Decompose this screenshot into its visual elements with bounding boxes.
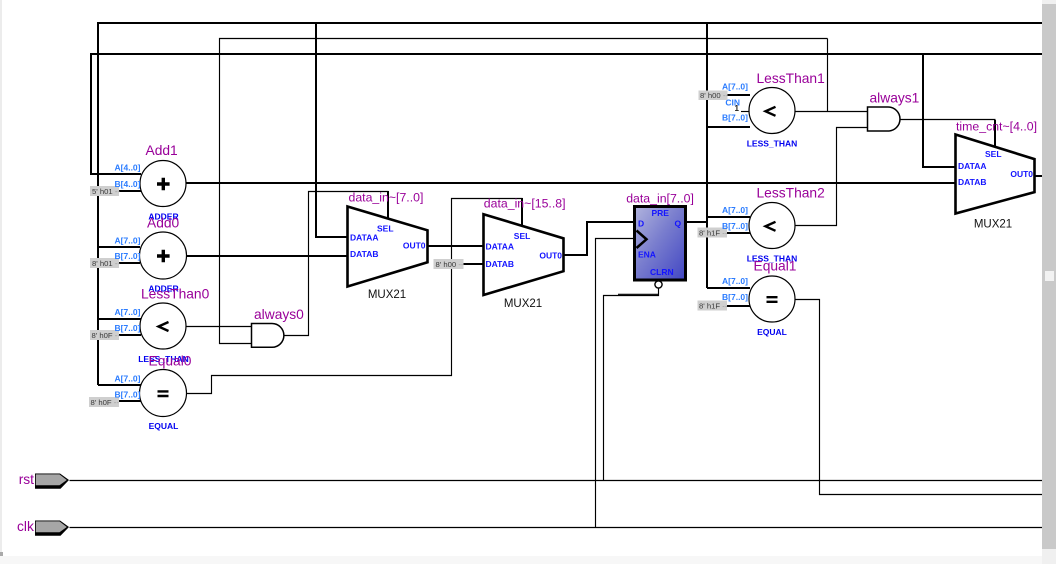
svg-text:Add0: Add0 [147, 216, 180, 231]
svg-text:8' h00 --: 8' h00 -- [436, 260, 464, 269]
svg-text:B[7..0]: B[7..0] [722, 292, 748, 302]
svg-text:A[7..0]: A[7..0] [115, 307, 141, 317]
svg-text:LESS_THAN: LESS_THAN [747, 139, 798, 149]
svg-text:data_in~[15..8]: data_in~[15..8] [484, 197, 566, 211]
svg-text:Q: Q [675, 219, 682, 229]
svg-text:clk: clk [17, 519, 34, 534]
svg-text:1: 1 [735, 104, 740, 113]
svg-text:EQUAL: EQUAL [149, 421, 179, 431]
svg-text:time_cnt~[4..0]: time_cnt~[4..0] [956, 120, 1037, 134]
svg-text:SEL: SEL [377, 224, 394, 234]
svg-text:MUX21: MUX21 [974, 219, 1012, 231]
svg-text:Equal0: Equal0 [149, 354, 192, 369]
svg-text:always1: always1 [870, 90, 920, 105]
svg-text:B[4..0]: B[4..0] [115, 179, 141, 189]
svg-text:A[4..0]: A[4..0] [115, 163, 141, 173]
svg-text:B[7..0]: B[7..0] [722, 221, 748, 231]
svg-text:LessThan2: LessThan2 [757, 186, 825, 201]
svg-text:LessThan0: LessThan0 [141, 287, 210, 302]
svg-text:8' h1F --: 8' h1F -- [699, 302, 728, 311]
svg-text:data_in~[7..0]: data_in~[7..0] [349, 191, 424, 205]
svg-text:LessThan1: LessThan1 [757, 71, 825, 86]
svg-text:MUX21: MUX21 [504, 298, 542, 310]
svg-text:DATAB: DATAB [350, 249, 378, 259]
svg-text:OUT0: OUT0 [539, 251, 562, 261]
svg-text:ENA: ENA [638, 250, 656, 260]
svg-text:EQUAL: EQUAL [757, 327, 787, 337]
svg-text:B[7..0]: B[7..0] [115, 390, 141, 400]
svg-text:DATAB: DATAB [486, 259, 514, 269]
svg-text:data_in[7..0]: data_in[7..0] [626, 192, 694, 206]
svg-text:DATAB: DATAB [958, 177, 986, 187]
svg-text:SEL: SEL [985, 149, 1002, 159]
svg-text:CLRN: CLRN [650, 267, 674, 277]
svg-text:always0: always0 [254, 307, 304, 322]
svg-text:SEL: SEL [514, 231, 531, 241]
svg-text:B[7..0]: B[7..0] [115, 323, 141, 333]
svg-text:Add1: Add1 [146, 143, 178, 158]
svg-text:B[7..0]: B[7..0] [115, 251, 141, 261]
svg-text:OUT0: OUT0 [1010, 169, 1033, 179]
svg-text:PRE: PRE [652, 208, 670, 218]
svg-text:rst: rst [19, 472, 34, 487]
svg-text:A[7..0]: A[7..0] [722, 205, 748, 215]
svg-text:A[7..0]: A[7..0] [722, 276, 748, 286]
svg-text:A[7..0]: A[7..0] [722, 82, 748, 92]
svg-text:A[7..0]: A[7..0] [115, 374, 141, 384]
svg-text:DATAA: DATAA [350, 233, 378, 243]
svg-text:B[7..0]: B[7..0] [722, 113, 748, 123]
svg-text:D: D [638, 219, 644, 229]
svg-text:DATAA: DATAA [958, 161, 986, 171]
svg-text:DATAA: DATAA [486, 241, 514, 251]
svg-text:8' h00 --: 8' h00 -- [700, 91, 728, 100]
svg-text:A[7..0]: A[7..0] [115, 236, 141, 246]
svg-text:Equal1: Equal1 [754, 259, 797, 274]
svg-text:OUT0: OUT0 [403, 241, 426, 251]
svg-text:MUX21: MUX21 [368, 289, 406, 301]
